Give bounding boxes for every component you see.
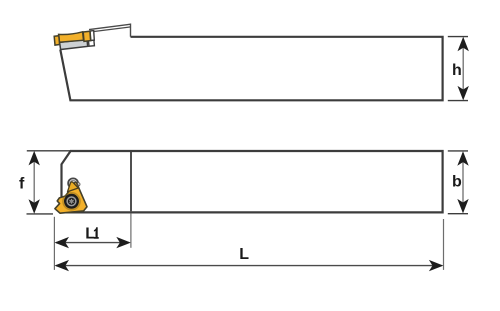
svg-text:h: h xyxy=(452,62,462,79)
svg-text:f: f xyxy=(19,176,25,193)
svg-text:b: b xyxy=(452,173,462,190)
svg-text:L: L xyxy=(239,246,249,263)
svg-text:L: L xyxy=(85,226,95,243)
